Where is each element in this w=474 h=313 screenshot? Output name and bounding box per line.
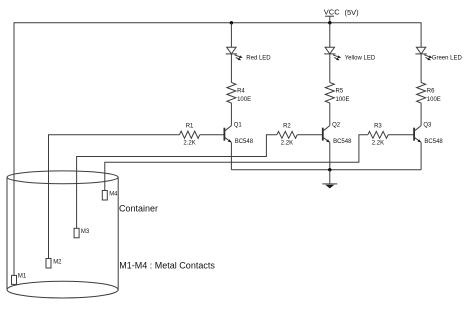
svg-text:R6: R6 [427,89,435,95]
svg-text:BC548: BC548 [333,139,352,145]
LED D3 Green LED [415,47,462,61]
svg-text:100E: 100E [237,97,251,103]
svg-text:2.2K: 2.2K [281,141,293,147]
container cylinder [7,171,118,298]
svg-text:R3: R3 [374,123,382,129]
ground [322,170,337,189]
wire Q3 emitter down [420,142,422,169]
resistor R6 100E [417,83,441,104]
svg-text:VCC: VCC [324,8,340,17]
wire R3 to Q3 base [388,134,414,136]
metal contact M2 [46,259,62,269]
svg-text:Q2: Q2 [332,123,341,129]
LED D2 Yellow LED [324,47,376,61]
junction rail-col2 [328,21,331,24]
svg-text:M4: M4 [109,191,118,197]
svg-text:BC548: BC548 [424,139,443,145]
resistor R2 2.2K [277,123,297,146]
metal contact M4 [102,191,118,201]
junction rail-col1 [230,21,233,24]
transistor Q3 BC548 [414,123,443,145]
svg-text:Q1: Q1 [234,123,243,129]
svg-text:M2: M2 [53,259,62,265]
resistor R4 100E [227,83,251,104]
svg-text:2.2K: 2.2K [372,141,384,147]
svg-text:Green LED: Green LED [432,55,463,61]
wire R2 to Q2 base [297,134,323,136]
transistor Q1 BC548 [224,123,253,145]
svg-text:Q3: Q3 [423,123,432,129]
wire R5 to Q2 collector [329,103,331,126]
wire M4 to R3 [105,135,368,191]
wire Green LED to R6 [420,54,422,83]
svg-text:R4: R4 [237,89,245,95]
wire rail to Yellow LED [329,23,331,48]
svg-text:BC548: BC548 [235,139,254,145]
svg-text:R1: R1 [186,123,194,129]
transistor Q2 BC548 [323,123,352,145]
resistor R5 100E [325,83,349,104]
metal contact M1 [12,274,27,285]
wire Yellow LED to R5 [329,54,331,83]
wire R4 to Q1 collector [230,103,232,126]
svg-text:M1: M1 [18,274,27,280]
wire Q1 emitter down [230,142,232,169]
svg-text:M1-M4 : Metal Contacts: M1-M4 : Metal Contacts [119,261,215,271]
LED D1 Red LED [226,47,272,61]
wire R6 to Q3 collector [420,103,422,126]
svg-text:R2: R2 [283,123,291,129]
wire VCC rail [14,23,421,276]
junction emitter-ground [328,168,331,171]
svg-text:Red LED: Red LED [246,55,271,61]
wire R1 to Q1 base [200,134,225,136]
wire emitter rail [231,169,421,171]
svg-text:R5: R5 [336,89,344,95]
wire M3 to R2 [77,135,277,229]
svg-text:M3: M3 [81,229,90,235]
svg-text:Container: Container [119,204,158,214]
svg-text:2.2K: 2.2K [183,141,195,147]
wire M2 to R1 [49,135,180,259]
resistor R3 2.2K [368,123,388,146]
resistor R1 2.2K [179,123,199,146]
wire rail to Red LED [230,23,232,48]
svg-text:(5V): (5V) [345,8,360,17]
wire Q2 emitter down [329,142,331,169]
wire Red LED to R4 [230,54,232,83]
svg-text:100E: 100E [336,97,350,103]
power VCC symbol [324,8,359,23]
svg-text:Yellow LED: Yellow LED [345,55,376,61]
svg-text:100E: 100E [427,97,441,103]
metal contact M3 [74,228,90,238]
